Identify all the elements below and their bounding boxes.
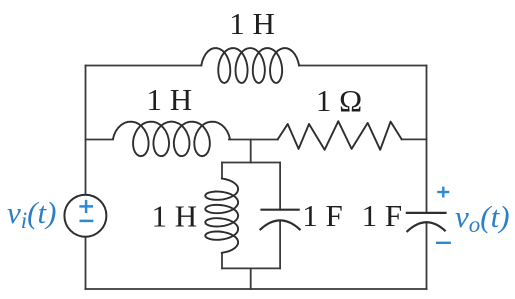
wire bottom bbox=[86, 288, 427, 290]
svg-text:1 Ω: 1 Ω bbox=[316, 83, 362, 118]
wire right vertical lower bbox=[426, 223, 428, 289]
wire top-left lead bbox=[86, 65, 202, 67]
voltage source vi circle bbox=[64, 195, 106, 237]
output plus sign bbox=[436, 187, 451, 243]
wire tank top stub bbox=[250, 140, 252, 163]
wire tank bottom rail bbox=[222, 267, 280, 269]
inductor L2 1H middle bbox=[113, 122, 230, 157]
capacitor C2 1F output: top plate bbox=[406, 212, 447, 214]
resistor R1 1ohm bbox=[278, 121, 402, 150]
voltage source minus sign bbox=[80, 220, 94, 223]
svg-text:vo(t): vo(t) bbox=[455, 199, 510, 237]
capacitor C1 1F tank: top plate bbox=[260, 209, 299, 211]
svg-text:1 H: 1 H bbox=[152, 198, 198, 233]
wire tank left lower lead bbox=[221, 253, 223, 269]
voltage source plus sign bbox=[79, 200, 93, 221]
wire tank cap upper lead bbox=[279, 163, 281, 210]
svg-text:1 F: 1 F bbox=[362, 198, 403, 233]
svg-text:1 H: 1 H bbox=[147, 82, 193, 117]
wire left vertical upper bbox=[85, 66, 87, 196]
svg-text:1 H: 1 H bbox=[229, 6, 275, 41]
inductor L1 1H top bbox=[201, 48, 299, 83]
wire tank top rail bbox=[222, 162, 280, 164]
wire second-row left lead bbox=[86, 139, 114, 141]
inductor L3 1H tank vertical bbox=[205, 179, 238, 253]
svg-text:1 F: 1 F bbox=[302, 198, 343, 233]
wire tank cap lower lead bbox=[279, 220, 281, 268]
wire tank left upper lead bbox=[221, 163, 223, 179]
capacitor C2 curved plate bbox=[407, 222, 446, 232]
wire second-row middle lead bbox=[229, 139, 278, 141]
wire top-right lead bbox=[299, 65, 427, 67]
output minus sign bbox=[436, 242, 451, 244]
wire tank bottom stub bbox=[250, 268, 252, 289]
wire left vertical lower bbox=[85, 237, 87, 289]
wire second-row right lead bbox=[402, 138, 427, 140]
wire right vertical upper bbox=[426, 66, 428, 213]
svg-text:vi(t): vi(t) bbox=[7, 195, 56, 233]
capacitor C1 curved plate bbox=[260, 220, 301, 230]
